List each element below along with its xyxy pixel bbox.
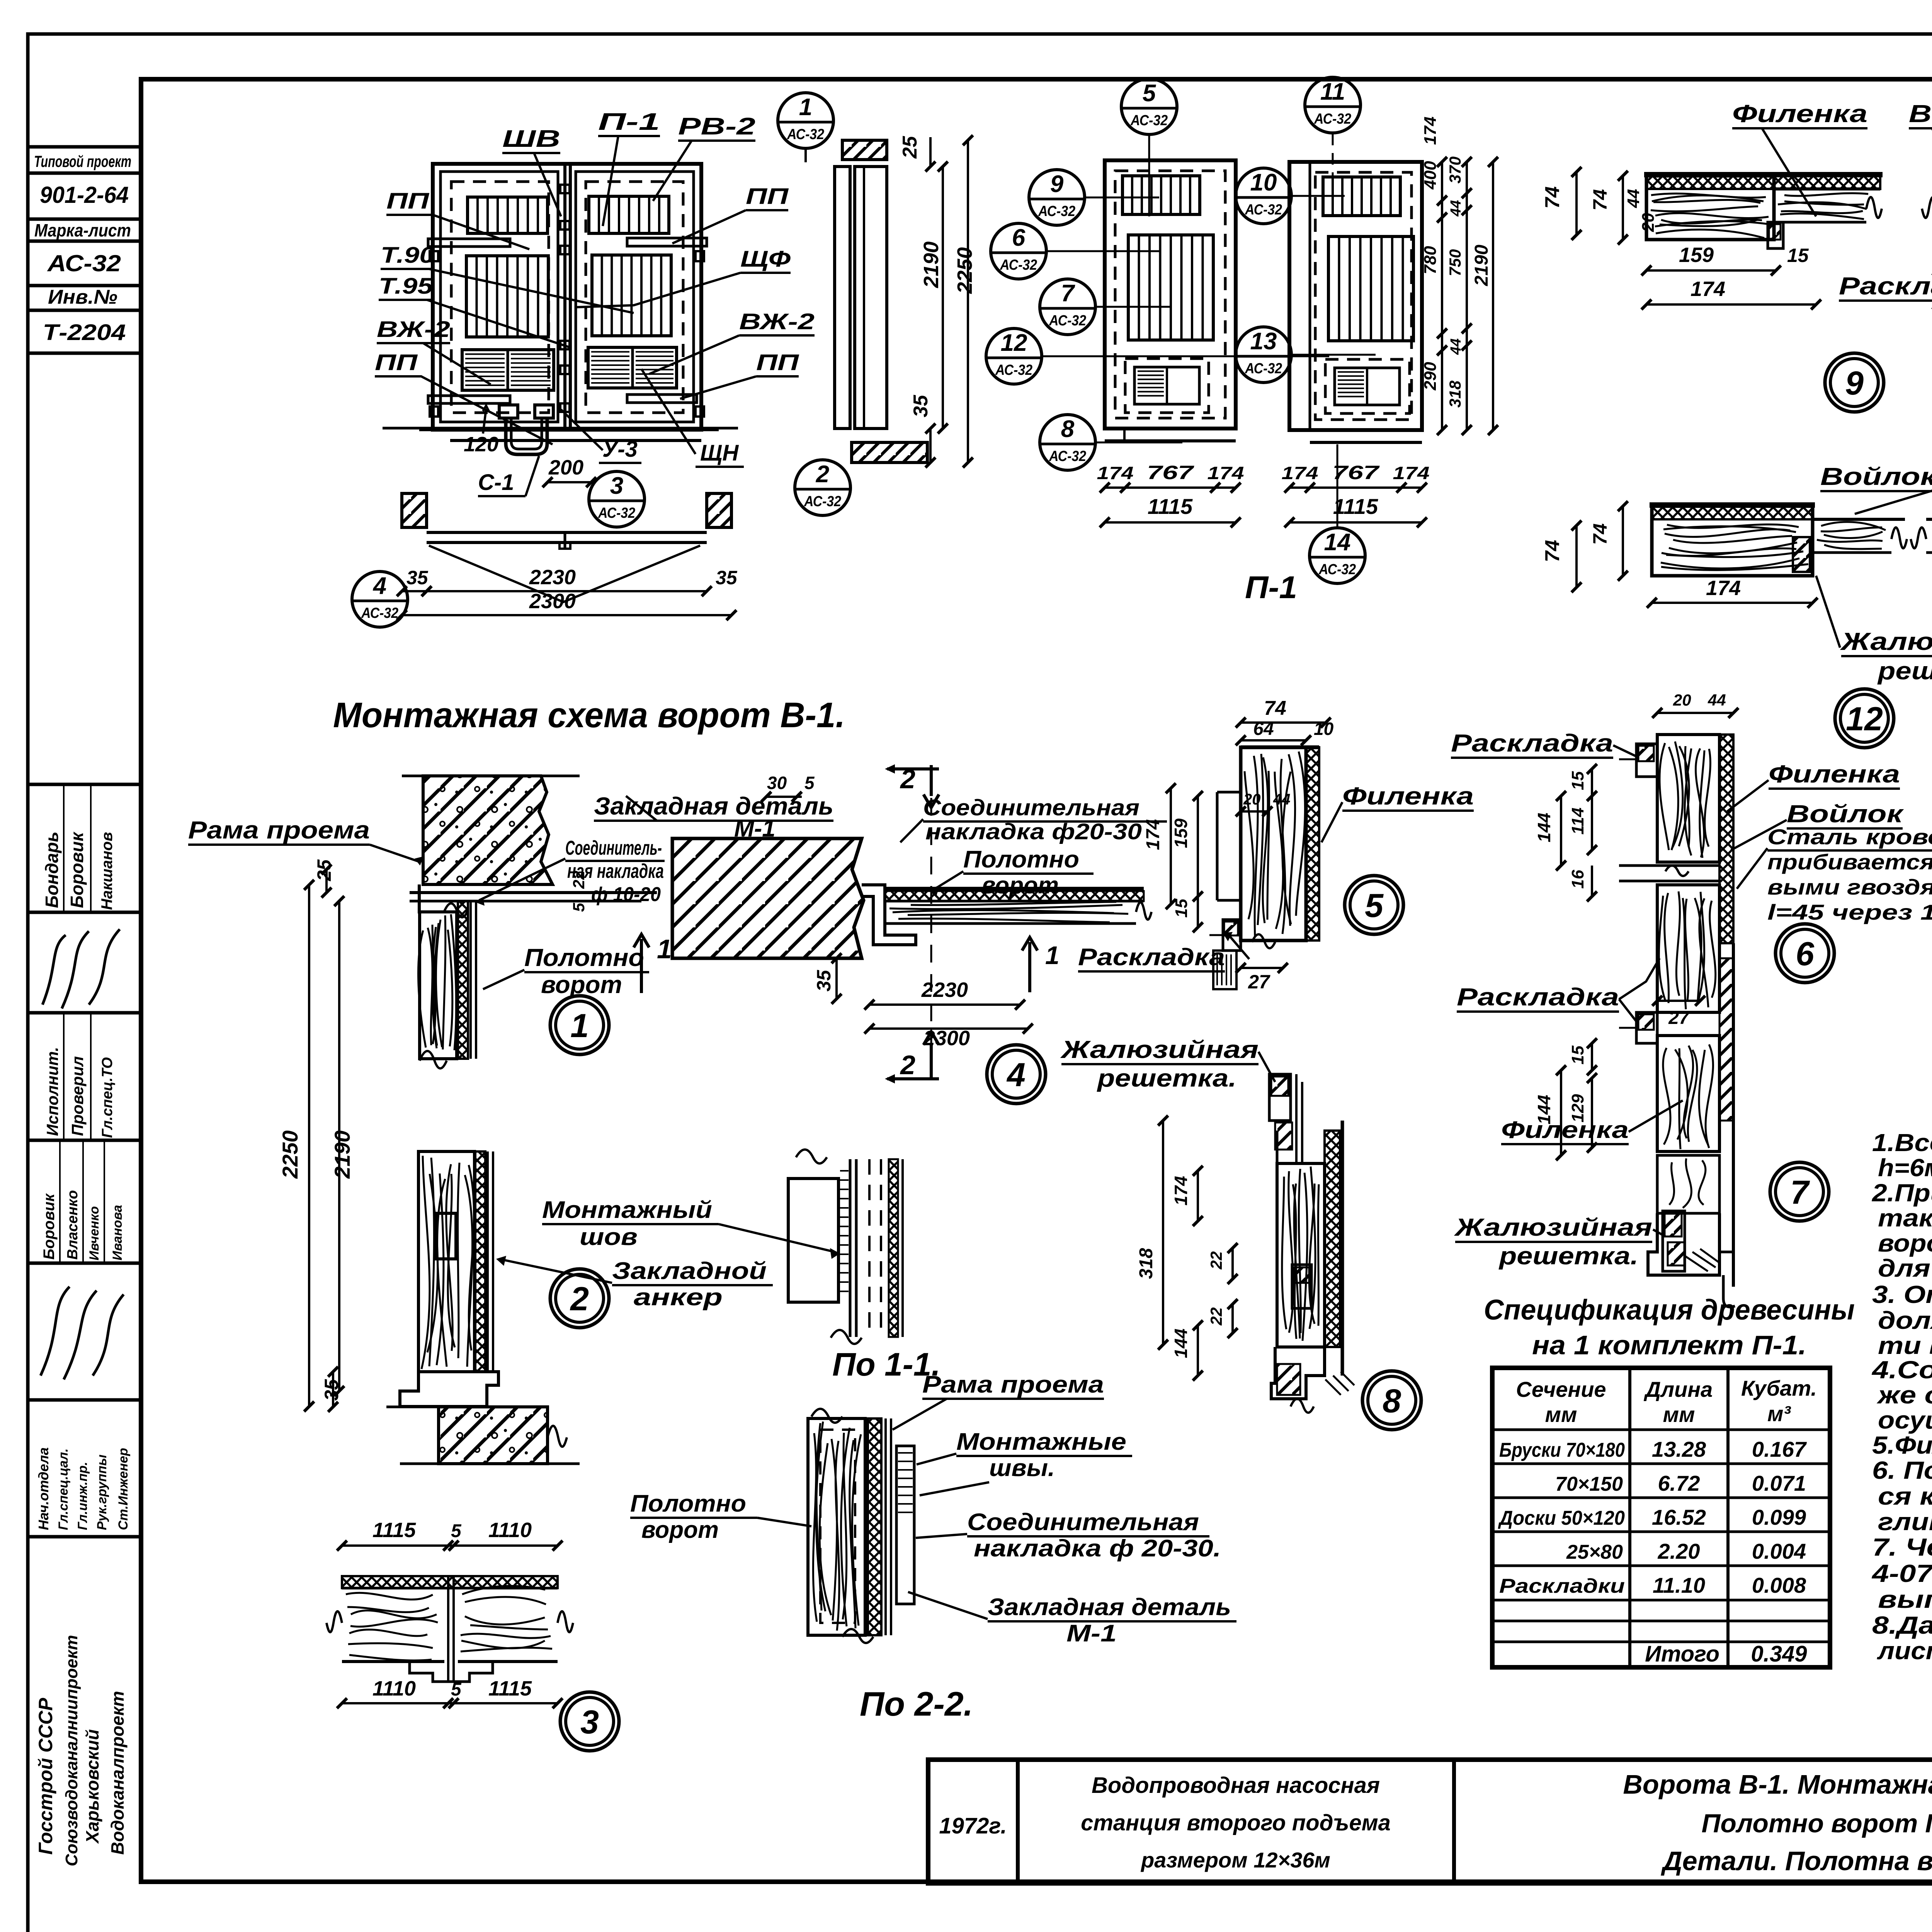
svg-text:Т.90: Т.90 <box>381 243 435 268</box>
svg-text:3: 3 <box>610 473 623 499</box>
circle 1 detail <box>550 996 609 1054</box>
svg-text:4: 4 <box>372 573 386 599</box>
vertical dims 2250/2190 <box>308 885 310 1406</box>
svg-text:15: 15 <box>1787 245 1809 266</box>
угол У-3 bottom <box>1271 1347 1325 1399</box>
callout circle 3 <box>589 471 645 527</box>
svg-text:2: 2 <box>570 1281 589 1318</box>
svg-text:15: 15 <box>1568 1046 1587 1065</box>
svg-text:0.167: 0.167 <box>1752 1437 1807 1461</box>
svg-text:10: 10 <box>1314 719 1334 739</box>
svg-text:74: 74 <box>1541 540 1564 562</box>
svg-text:Монтажные: Монтажные <box>956 1429 1126 1455</box>
svg-text:174: 174 <box>1690 277 1725 301</box>
gate plan view <box>402 493 427 527</box>
svg-text:4: 4 <box>1006 1056 1026 1094</box>
svg-text:5: 5 <box>570 903 588 912</box>
svg-text:74: 74 <box>1589 189 1611 211</box>
svg-text:должны превышать 3 мм. Пере: должны превышать 3 мм. Перекос полотна в… <box>1878 1306 1932 1334</box>
svg-text:20: 20 <box>1243 791 1261 808</box>
section mark 2 bottom <box>923 1032 939 1078</box>
svg-text:АС-32: АС-32 <box>1314 111 1351 127</box>
svg-text:2: 2 <box>900 1050 915 1080</box>
svg-text:АС-32: АС-32 <box>598 505 635 521</box>
svg-text:РВ-2: РВ-2 <box>678 113 755 140</box>
svg-text:Типовой проект: Типовой проект <box>34 152 131 170</box>
svg-text:Рук.группы: Рук.группы <box>95 1454 109 1530</box>
2-2 cut dashed line <box>930 798 932 1043</box>
svg-text:7: 7 <box>1790 1174 1810 1211</box>
dims detail 5 <box>1241 721 1326 724</box>
svg-text:Рама проема: Рама проема <box>188 816 370 844</box>
svg-text:11.10: 11.10 <box>1653 1573 1705 1597</box>
svg-text:П-1: П-1 <box>1245 570 1297 605</box>
раскладка notch 9 <box>1768 222 1783 248</box>
svg-text:листами АС-3, 6 , 33÷35.: листами АС-3, 6 , 33÷35. <box>1877 1637 1932 1665</box>
svg-text:Сталь кровельная: Сталь кровельная <box>1767 825 1932 849</box>
svg-text:прибивается толе-: прибивается толе- <box>1767 850 1932 874</box>
svg-text:Войлок: Войлок <box>1787 800 1905 828</box>
svg-text:Длина: Длина <box>1644 1377 1713 1401</box>
svg-text:44: 44 <box>1448 338 1464 355</box>
svg-text:1: 1 <box>657 934 672 964</box>
svg-text:накладка ф20-30: накладка ф20-30 <box>925 819 1142 844</box>
svg-text:АС-32: АС-32 <box>1245 361 1282 377</box>
right leaf mid panel <box>592 255 671 336</box>
svg-text:Ст.Инженер: Ст.Инженер <box>116 1448 131 1530</box>
svg-text:Гл.инж.пр.: Гл.инж.пр. <box>75 1462 90 1530</box>
dims detail 8 <box>1197 1171 1199 1221</box>
svg-text:АС-32: АС-32 <box>1318 561 1356 578</box>
svg-text:АС-32: АС-32 <box>1245 202 1282 218</box>
svg-text:44: 44 <box>1624 189 1643 208</box>
svg-text:АС-32: АС-32 <box>1049 313 1086 329</box>
svg-text:Полотно ворот П-1.: Полотно ворот П-1. <box>1702 1809 1932 1838</box>
svg-text:2230: 2230 <box>529 566 576 589</box>
svg-text:750: 750 <box>1446 249 1464 276</box>
svg-text:1: 1 <box>1045 941 1060 969</box>
hinge blocks on centreline <box>560 185 570 193</box>
svg-text:120: 120 <box>464 433 498 456</box>
svg-text:ВЖ-2: ВЖ-2 <box>739 309 815 334</box>
svg-text:ШВ: ШВ <box>502 126 560 152</box>
svg-text:5: 5 <box>451 1679 462 1700</box>
svg-text:Союзводоканалниипроект: Союзводоканалниипроект <box>62 1635 81 1866</box>
svg-text:ПП: ПП <box>375 350 418 375</box>
svg-text:4-07-559 Промстройпроекта: 4-07-559 Промстройпроекта 1961г. серия П… <box>1871 1560 1932 1587</box>
panel П-1 left <box>1105 160 1236 429</box>
svg-text:Бруски 70×180: Бруски 70×180 <box>1499 1439 1625 1461</box>
svg-text:8: 8 <box>1383 1383 1401 1420</box>
svg-text:2.20: 2.20 <box>1658 1539 1700 1563</box>
svg-text:П-1: П-1 <box>598 109 660 135</box>
svg-text:3. Отклонения от номинальных: 3. Отклонения от номинальных размеров во… <box>1872 1281 1932 1308</box>
svg-text:8: 8 <box>1061 416 1075 442</box>
svg-text:мм: мм <box>1663 1402 1695 1427</box>
detail 1: concrete lintel <box>423 776 553 884</box>
svg-text:7. Чертеж заимствован из: 7. Чертеж заимствован из типового проект… <box>1872 1533 1932 1561</box>
svg-text:1115: 1115 <box>1333 494 1378 519</box>
svg-text:1: 1 <box>799 94 812 121</box>
svg-text:АС-32: АС-32 <box>804 493 841 510</box>
svg-text:70×150: 70×150 <box>1555 1473 1623 1495</box>
svg-text:АС-32: АС-32 <box>995 362 1032 378</box>
svg-text:16.52: 16.52 <box>1652 1505 1706 1529</box>
svg-text:выми гвоздями ф2: выми гвоздями ф2 <box>1767 875 1932 899</box>
svg-text:ЩФ: ЩФ <box>740 247 791 272</box>
svg-text:Ворота В-1. Монтажная схема.: Ворота В-1. Монтажная схема. <box>1623 1769 1932 1799</box>
svg-text:8.Данный лист рассматривать: 8.Данный лист рассматривать совместно с <box>1872 1611 1932 1639</box>
svg-text:Жалюзийная: Жалюзийная <box>1840 628 1932 655</box>
svg-text:Власенко: Власенко <box>65 1190 81 1260</box>
svg-text:13: 13 <box>1250 328 1277 355</box>
left leaf bottom grille ВЖ-2 <box>462 350 554 390</box>
svg-text:767: 767 <box>1147 462 1194 483</box>
svg-text:15: 15 <box>1568 771 1587 790</box>
svg-text:Бондарь: Бондарь <box>42 832 62 908</box>
edge blocks <box>430 251 438 261</box>
svg-text:780: 780 <box>1421 246 1440 274</box>
svg-text:накладка ф 20-30.: накладка ф 20-30. <box>974 1535 1221 1562</box>
svg-text:решетка: решетка <box>1877 657 1932 685</box>
callout circle 1 <box>778 93 833 148</box>
svg-text:Рама проема: Рама проема <box>922 1371 1104 1398</box>
svg-text:5.Филенки ворот следует соб: 5.Филенки ворот следует собирать из досо… <box>1872 1431 1932 1459</box>
svg-text:решетка.: решетка. <box>1097 1064 1236 1092</box>
угол рамы <box>862 885 916 945</box>
svg-text:74: 74 <box>1264 697 1286 719</box>
svg-text:174: 174 <box>1282 463 1318 483</box>
svg-text:Т-2204: Т-2204 <box>43 320 126 345</box>
svg-text:0.004: 0.004 <box>1752 1539 1806 1563</box>
gate elevation: Монтажная схема ворот В-1 <box>433 164 701 430</box>
svg-text:174: 174 <box>1143 819 1163 850</box>
svg-text:Полотно: Полотно <box>524 944 644 971</box>
circle 7 detail <box>1770 1162 1829 1221</box>
svg-text:С-1: С-1 <box>478 470 514 495</box>
svg-text:3: 3 <box>580 1704 599 1741</box>
svg-text:Детали. Полотна ворот.: Детали. Полотна ворот. <box>1661 1846 1932 1876</box>
svg-text:ЩН: ЩН <box>700 440 739 466</box>
svg-text:шов: шов <box>580 1224 638 1250</box>
circle 4 detail <box>987 1045 1046 1104</box>
svg-text:901-2-64: 901-2-64 <box>40 182 129 208</box>
svg-text:Инв.№: Инв.№ <box>48 286 117 308</box>
svg-text:159: 159 <box>1679 243 1714 267</box>
svg-text:АС-32: АС-32 <box>787 126 824 143</box>
svg-text:1115: 1115 <box>488 1677 532 1700</box>
svg-text:22: 22 <box>1207 1251 1225 1270</box>
panel dims below left <box>1105 486 1236 489</box>
svg-text:выпуск 22 листы АС-3, АС: выпуск 22 листы АС-3, АС-5, АС-6. <box>1878 1585 1932 1613</box>
svg-text:Монтажный: Монтажный <box>542 1197 712 1223</box>
svg-text:12: 12 <box>1846 701 1883 738</box>
svg-text:30: 30 <box>767 773 787 793</box>
svg-text:200: 200 <box>548 456 583 479</box>
svg-text:Раскладки: Раскладки <box>1499 1575 1625 1597</box>
svg-text:35: 35 <box>406 567 429 588</box>
svg-text:0.349: 0.349 <box>1751 1641 1807 1667</box>
svg-text:станция второго подъема: станция второго подъема <box>1081 1810 1391 1835</box>
svg-text:174: 174 <box>1171 1176 1191 1206</box>
circle 2 detail <box>550 1269 609 1328</box>
svg-text:Водоканалпроект: Водоканалпроект <box>107 1691 128 1855</box>
svg-text:159: 159 <box>1171 818 1191 848</box>
svg-text:174: 174 <box>1421 117 1440 145</box>
svg-text:Водопроводная насосная: Водопроводная насосная <box>1092 1773 1380 1798</box>
svg-text:114: 114 <box>1568 808 1587 835</box>
svg-text:2300: 2300 <box>529 590 576 613</box>
svg-text:Раскладка: Раскладка <box>1457 983 1619 1011</box>
svg-text:ПП: ПП <box>756 350 799 375</box>
circle 8 detail <box>1362 1371 1421 1430</box>
frame angle under concrete <box>410 891 657 894</box>
svg-text:1115: 1115 <box>372 1519 416 1542</box>
svg-text:АС-32: АС-32 <box>1038 203 1075 219</box>
svg-text:Раскладка: Раскладка <box>1078 944 1225 971</box>
svg-text:2250: 2250 <box>278 1130 302 1179</box>
колонна продолжение <box>1657 1155 1719 1213</box>
svg-text:1972г.: 1972г. <box>939 1813 1007 1838</box>
section 12 <box>1652 506 1813 576</box>
svg-text:10: 10 <box>1250 169 1277 196</box>
circle 6 detail <box>1776 924 1834 983</box>
detail 2: нижний узел <box>475 1151 485 1372</box>
detail 6: вертикальный разрез (середина) <box>1719 735 1733 943</box>
раскладка notch <box>1223 920 1241 951</box>
wood column <box>1325 1131 1340 1347</box>
филенка panel left <box>1217 791 1241 794</box>
svg-text:Раскладка: Раскладка <box>1839 272 1932 300</box>
svg-text:Филенка: Филенка <box>1342 782 1474 810</box>
svg-text:АС-32: АС-32 <box>1049 448 1086 464</box>
svg-text:74: 74 <box>1541 186 1564 209</box>
svg-text:74: 74 <box>1589 523 1611 545</box>
svg-text:370: 370 <box>1446 156 1464 184</box>
svg-text:44: 44 <box>1708 691 1726 709</box>
right leaf bottom grille <box>588 347 677 388</box>
svg-text:мм: мм <box>1545 1402 1577 1427</box>
svg-text:2300: 2300 <box>923 1027 970 1050</box>
dims section 12 <box>1622 506 1624 576</box>
svg-text:15: 15 <box>1172 899 1191 918</box>
svg-text:6: 6 <box>1012 224 1026 251</box>
svg-text:Кубат.: Кубат. <box>1741 1376 1817 1400</box>
svg-text:Раскладка: Раскладка <box>1451 729 1613 757</box>
svg-text:Боровик: Боровик <box>41 1193 58 1260</box>
svg-text:Иванова: Иванова <box>110 1205 125 1260</box>
svg-text:Соединительная: Соединительная <box>923 795 1139 820</box>
svg-text:27: 27 <box>1668 1008 1690 1028</box>
svg-text:11: 11 <box>1320 78 1345 105</box>
circle 3 detail <box>560 1692 619 1751</box>
svg-text:Боровик: Боровик <box>67 831 87 908</box>
svg-text:144: 144 <box>1171 1328 1191 1358</box>
svg-text:35: 35 <box>716 567 738 588</box>
svg-text:20: 20 <box>1673 691 1691 709</box>
svg-text:767: 767 <box>1332 462 1380 483</box>
door leaf below (wood + felt) <box>458 901 468 1059</box>
svg-text:2: 2 <box>816 461 829 488</box>
svg-text:Накшанов: Накшанов <box>99 832 116 910</box>
left leaf louver window <box>468 197 548 233</box>
svg-text:ф 10-20: ф 10-20 <box>591 883 661 906</box>
svg-text:20: 20 <box>1639 213 1658 232</box>
svg-text:2230: 2230 <box>921 978 968 1002</box>
порог <box>400 1372 498 1406</box>
svg-text:м³: м³ <box>1767 1401 1791 1426</box>
svg-text:Исполнит.: Исполнит. <box>43 1047 61 1136</box>
svg-text:0.008: 0.008 <box>1752 1573 1806 1597</box>
svg-text:9: 9 <box>1050 171 1064 197</box>
нижняя часть (деталь 7 колонна) <box>1732 943 1735 1121</box>
svg-text:АС-32: АС-32 <box>47 250 121 276</box>
svg-text:швы.: швы. <box>989 1455 1055 1481</box>
svg-text:Госстрой СССР: Госстрой СССР <box>35 1697 56 1855</box>
svg-text:Харьковский: Харьковский <box>82 1729 102 1844</box>
svg-text:ворот: ворот <box>641 1517 719 1543</box>
section mark 1-1 <box>634 934 649 993</box>
svg-text:Войлок: Войлок <box>1820 463 1932 490</box>
left leaf mid panel <box>466 256 548 337</box>
решетка top hatch <box>1269 1074 1291 1121</box>
svg-text:h=6мм.: h=6мм. <box>1878 1154 1932 1182</box>
svg-text:По 2-2.: По 2-2. <box>860 1685 973 1723</box>
svg-text:1.Все сварные монтажные швы: 1.Все сварные монтажные швы считать толщ… <box>1872 1129 1932 1156</box>
svg-text:0.071: 0.071 <box>1752 1471 1806 1495</box>
dims detail 3 <box>342 1544 558 1547</box>
svg-text:7: 7 <box>1061 280 1075 307</box>
far right 74 dims <box>1575 172 1578 235</box>
svg-text:ворот должны отвечать ГОСТ 6: ворот должны отвечать ГОСТ 6629-64 „Двер… <box>1878 1229 1932 1257</box>
sidebar signature cell 2 <box>41 1287 124 1379</box>
svg-text:Марка-лист: Марка-лист <box>34 220 131 240</box>
svg-text:13.28: 13.28 <box>1652 1437 1706 1461</box>
svg-text:АС-32: АС-32 <box>1000 257 1037 273</box>
circle 12 <box>1835 689 1894 748</box>
svg-text:25: 25 <box>899 136 921 159</box>
sidebar stamp column <box>28 145 141 149</box>
svg-text:Филенка: Филенка <box>1501 1117 1629 1143</box>
svg-text:400: 400 <box>1421 161 1440 190</box>
полотно beam section <box>885 887 1144 891</box>
svg-text:1: 1 <box>570 1007 589 1044</box>
решетка hatch 12 <box>1793 537 1810 572</box>
svg-text:глине или по асбестовому к: глине или по асбестовому картону. <box>1878 1508 1932 1536</box>
svg-text:ПП: ПП <box>746 184 789 209</box>
По 1-1 section <box>788 1179 838 1302</box>
svg-text:1115: 1115 <box>1148 494 1193 519</box>
section 9 <box>1646 176 1774 240</box>
svg-text:16: 16 <box>1568 870 1587 889</box>
dims detail 6 <box>1657 712 1733 714</box>
svg-text:2190: 2190 <box>1471 245 1492 286</box>
svg-text:25×80: 25×80 <box>1566 1541 1623 1563</box>
svg-text:Итого: Итого <box>1645 1641 1719 1667</box>
svg-text:Нач.отдела: Нач.отдела <box>36 1447 51 1530</box>
section mark 2 top <box>923 765 939 808</box>
svg-text:ВЖ-2: ВЖ-2 <box>377 317 450 342</box>
callout circle 2 <box>795 460 850 515</box>
sidebar signature cell 1 <box>43 929 120 1009</box>
svg-text:также требования к обработке: также требования к обработке деревянных … <box>1878 1204 1932 1232</box>
svg-text:2.Применяемая при изготовлен: 2.Применяемая при изготовлении ворот дре… <box>1872 1179 1932 1207</box>
svg-text:Доски 50×120: Доски 50×120 <box>1498 1507 1625 1529</box>
svg-text:Филенка: Филенка <box>1732 100 1867 128</box>
svg-text:2190: 2190 <box>920 241 943 288</box>
svg-text:АС-32: АС-32 <box>1130 112 1168 129</box>
right leaf louver window <box>589 196 669 233</box>
svg-text:Гл.спец.ТО: Гл.спец.ТО <box>99 1057 116 1138</box>
svg-text:ся кровельной сталью по во: ся кровельной сталью по войлоку смоченно… <box>1878 1482 1932 1510</box>
svg-text:l=45 через 100.: l=45 через 100. <box>1767 900 1932 924</box>
svg-text:М-1: М-1 <box>1066 1620 1117 1647</box>
svg-text:318: 318 <box>1136 1248 1156 1279</box>
svg-text:Монтажная схема ворот В-1.: Монтажная схема ворот В-1. <box>333 696 845 735</box>
svg-text:6.72: 6.72 <box>1658 1471 1700 1495</box>
svg-text:Гл.спец.цал.: Гл.спец.цал. <box>56 1448 71 1530</box>
svg-text:290: 290 <box>1421 362 1440 391</box>
circle 9 <box>1825 353 1884 412</box>
решетка piece <box>1663 1211 1685 1271</box>
svg-text:35: 35 <box>813 969 835 992</box>
svg-text:144: 144 <box>1534 813 1554 842</box>
svg-text:Жалюзийная: Жалюзийная <box>1060 1036 1259 1063</box>
svg-text:5: 5 <box>451 1521 462 1541</box>
svg-text:Полотно: Полотно <box>963 846 1079 873</box>
svg-text:Соединитель-: Соединитель- <box>565 837 662 859</box>
svg-text:ПП: ПП <box>386 189 430 214</box>
svg-text:2190: 2190 <box>330 1130 354 1179</box>
bottom band + ground <box>419 428 719 431</box>
detail 4: закладная М-1 + полотно plan <box>672 838 864 958</box>
svg-text:174: 174 <box>1097 463 1134 483</box>
svg-text:174: 174 <box>1207 463 1244 483</box>
svg-text:Закладной: Закладной <box>612 1258 767 1284</box>
svg-text:14: 14 <box>1324 529 1351 556</box>
svg-text:Т.95: Т.95 <box>379 274 433 299</box>
svg-text:осуществляться двойным щипом: осуществляться двойным щипом. <box>1878 1406 1932 1434</box>
svg-text:0.099: 0.099 <box>1752 1505 1806 1529</box>
svg-text:ти ворот не должен превышат: ти ворот не должен превышать 5 мм. <box>1878 1332 1932 1359</box>
svg-text:размером 12×36м: размером 12×36м <box>1140 1848 1330 1872</box>
svg-text:44: 44 <box>1448 200 1464 217</box>
svg-text:Проверил: Проверил <box>68 1056 87 1136</box>
svg-text:ворот: ворот <box>981 872 1059 899</box>
title block <box>928 1760 1932 1883</box>
detail 3: стык полотен <box>342 1576 558 1588</box>
svg-text:27: 27 <box>1248 971 1270 993</box>
svg-text:Спецификация древесины: Спецификация древесины <box>1484 1294 1855 1326</box>
svg-text:174: 174 <box>1393 463 1430 483</box>
svg-text:Ивченко: Ивченко <box>87 1206 102 1260</box>
закладной анкер <box>436 1213 456 1259</box>
ПП planks <box>428 239 510 247</box>
panel right-side dims <box>1441 162 1443 430</box>
svg-text:174: 174 <box>1706 577 1741 600</box>
svg-text:35: 35 <box>910 395 932 417</box>
svg-text:22: 22 <box>1207 1307 1225 1326</box>
svg-text:5: 5 <box>804 773 815 793</box>
svg-text:Соединительная: Соединительная <box>967 1509 1199 1536</box>
door handles and U pipe <box>499 405 518 418</box>
По 2-2 section <box>808 1418 865 1635</box>
нижний узел порог <box>1648 1213 1719 1275</box>
plan dims <box>402 590 427 592</box>
svg-text:9: 9 <box>1845 365 1864 402</box>
svg-text:35: 35 <box>321 1379 342 1401</box>
svg-text:1110: 1110 <box>488 1519 532 1542</box>
